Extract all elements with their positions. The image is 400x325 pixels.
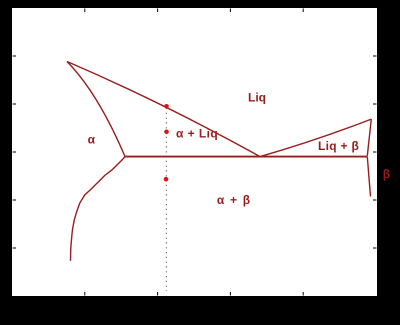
svg-text:Liq + β: Liq + β — [318, 139, 359, 153]
y-axis right ticks — [373, 56, 377, 248]
left liquidus — [67, 62, 260, 157]
right liquidus — [260, 119, 371, 157]
left solidus — [67, 62, 125, 157]
svg-text:Liq: Liq — [248, 91, 266, 105]
x-axis ticks — [85, 292, 303, 296]
beta solidus — [367, 119, 371, 156]
svg-text:α: α — [88, 132, 96, 146]
composition construction line (black dotted vertical at x=166) — [165, 108, 167, 291]
eutectic isotherm — [125, 156, 367, 158]
state point 3 in alpha+beta — [164, 177, 169, 182]
alpha solvus — [71, 157, 126, 261]
svg-text:β: β — [383, 167, 390, 181]
x-axis top ticks — [85, 9, 303, 13]
svg-text:α + Liq: α + Liq — [176, 127, 218, 141]
beta solvus — [367, 157, 370, 197]
state point 2 in alpha+Liq — [164, 130, 169, 135]
state point 1 on liquidus — [164, 104, 169, 109]
y-axis ticks — [13, 56, 17, 248]
svg-text:α + β: α + β — [217, 193, 251, 207]
